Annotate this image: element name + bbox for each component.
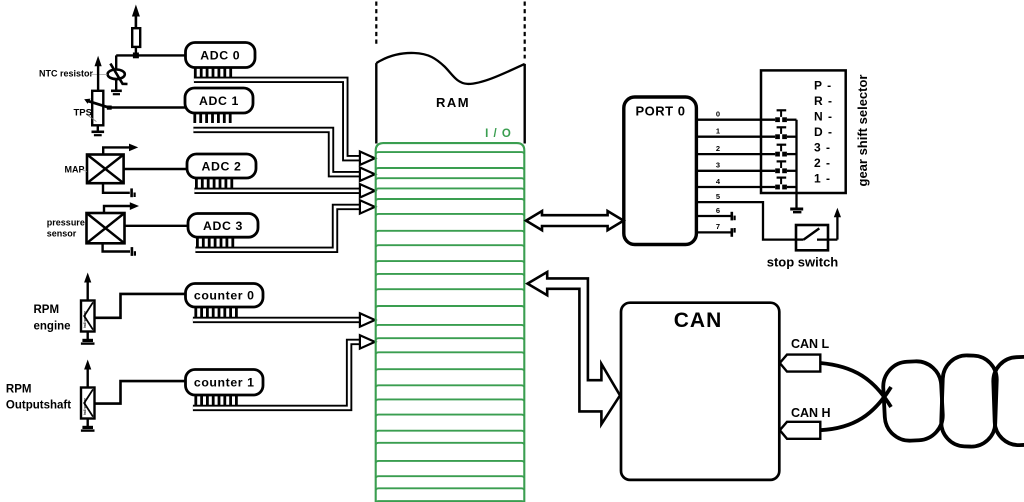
ADC 0 bus arrowhead into I/O xyxy=(360,152,375,165)
svg-text:2: 2 xyxy=(716,144,720,153)
RPM engine sensor xyxy=(81,301,95,332)
svg-text:2 -: 2 - xyxy=(814,156,831,170)
svg-text:CAN L: CAN L xyxy=(791,337,830,351)
MAP sensor xyxy=(87,155,124,184)
label CAN L xyxy=(791,337,830,351)
svg-text:pressure: pressure xyxy=(47,217,85,227)
gear switch 2 (push button) xyxy=(775,145,796,157)
svg-text:3 -: 3 - xyxy=(814,141,831,155)
ground under TPS xyxy=(92,125,105,135)
bent arrow I/O <-> CAN xyxy=(528,272,621,424)
svg-text:sensor: sensor xyxy=(47,228,77,238)
CAN L connector xyxy=(780,355,821,372)
RAM column dashed top left xyxy=(375,2,377,46)
gear position label P xyxy=(814,79,832,93)
CAN controller block xyxy=(621,303,779,480)
NTC resistor (thermistor) xyxy=(108,55,128,90)
ADC 1 block U-ADC1 xyxy=(185,88,253,113)
ADC 3 bus to I/O xyxy=(195,207,360,250)
ground under RPM outputshaft sensor xyxy=(81,419,95,431)
counter 1 block xyxy=(186,370,264,396)
label stop switch xyxy=(767,254,839,269)
counter 0 bus to I/O xyxy=(193,317,359,323)
svg-text:P -: P - xyxy=(814,79,832,93)
supply arrow above TPS xyxy=(95,56,102,91)
label NTC resistor xyxy=(39,69,107,79)
ADC 2 bus to I/O xyxy=(194,188,360,194)
gear position label 1 xyxy=(814,172,831,186)
svg-text:ADC 2: ADC 2 xyxy=(202,159,242,173)
ground under RPM engine sensor xyxy=(81,332,95,344)
ADC 3 pin comb xyxy=(197,237,232,247)
RAM column left wall xyxy=(375,63,377,143)
I/O register file (green rows) xyxy=(376,143,525,502)
svg-text:1 -: 1 - xyxy=(814,172,831,186)
svg-text:counter 1: counter 1 xyxy=(194,376,255,390)
wire pressure sensor to ADC 3 xyxy=(125,225,189,227)
counter 1 bus arrowhead into I/O xyxy=(360,335,375,348)
pressure sensor vent stub with termination xyxy=(103,243,135,256)
RAM torn-edge wavy curve xyxy=(376,53,524,84)
label I/O xyxy=(485,128,512,140)
twisted pair loop 2 xyxy=(940,355,997,448)
double arrow I/O <-> PORT0 xyxy=(526,211,624,230)
ADC 1 bus to I/O xyxy=(193,130,360,174)
gear switch 4 (push button) xyxy=(775,178,796,190)
ADC 2 pin comb xyxy=(196,178,231,188)
gear switch 3 (push button) xyxy=(775,161,796,173)
supply arrow above pull-up resistor xyxy=(132,5,140,29)
PORT0 pin 5 wire to stop switch xyxy=(696,192,796,240)
RAM column dashed top right xyxy=(524,2,526,59)
supply arrow above RPM engine sensor xyxy=(84,273,91,301)
svg-text:Outputshaft: Outputshaft xyxy=(6,400,71,412)
svg-text:ADC 0: ADC 0 xyxy=(200,48,240,62)
gear switch common bus xyxy=(795,120,797,209)
wire RPM outputshaft sensor to counter 1 xyxy=(95,381,186,404)
RAM column right wall xyxy=(524,64,526,144)
ADC 1 pin comb xyxy=(195,113,230,123)
gear shift selector box xyxy=(761,70,846,193)
label pressure sensor xyxy=(47,217,85,238)
label MAP xyxy=(65,164,87,174)
MAP vent stub with termination xyxy=(103,183,135,197)
PORT0 pin 6 stub xyxy=(696,206,734,221)
wire MAP to ADC 2 xyxy=(124,168,188,170)
node junction at ADC0 wire xyxy=(133,53,139,59)
ADC 2 block U-ADC2 xyxy=(187,154,256,178)
counter 0 pin comb xyxy=(196,307,237,318)
ADC 0 bus to I/O xyxy=(194,80,360,158)
svg-text:CAN H: CAN H xyxy=(791,406,831,420)
label CAN H xyxy=(791,406,831,420)
svg-text:R -: R - xyxy=(814,94,833,108)
node junction TPS wiper xyxy=(107,106,112,110)
label TPS xyxy=(74,108,97,122)
ground under NTC xyxy=(111,91,122,94)
svg-text:TPS: TPS xyxy=(74,108,92,119)
svg-text:1: 1 xyxy=(716,127,720,136)
svg-text:3: 3 xyxy=(716,161,720,170)
svg-text:ADC 1: ADC 1 xyxy=(199,94,239,108)
wire resistor to junction xyxy=(135,47,137,56)
ADC 3 block U-ADC3 xyxy=(188,214,258,238)
svg-text:CAN: CAN xyxy=(674,309,723,332)
RPM outputshaft sensor xyxy=(81,388,95,419)
ADC 0 block U-ADC0 xyxy=(186,43,256,68)
svg-text:RPM: RPM xyxy=(34,304,60,316)
wire RPM engine sensor to counter 0 xyxy=(95,294,186,318)
pull-up resistor xyxy=(132,28,140,47)
twisted pair wire CAN L xyxy=(820,363,891,407)
label gear shift selector xyxy=(855,75,870,187)
svg-text:NTC resistor: NTC resistor xyxy=(39,69,94,79)
ADC 1 bus arrowhead into I/O xyxy=(360,168,375,181)
wire to ADC 0 xyxy=(116,54,185,56)
pressure sensor xyxy=(87,213,125,243)
MAP pressure-in arrow xyxy=(103,144,138,155)
label RPM Outputshaft xyxy=(6,383,71,411)
counter 0 block xyxy=(186,284,264,308)
svg-text:engine: engine xyxy=(34,321,71,333)
ADC 2 bus arrowhead into I/O xyxy=(360,184,375,197)
svg-text:RAM: RAM xyxy=(436,95,470,110)
PORT0 pin 7 stub xyxy=(696,222,734,237)
svg-text:hall sensor: hall sensor xyxy=(83,310,87,328)
svg-text:7: 7 xyxy=(716,222,720,231)
svg-text:I / O: I / O xyxy=(485,128,512,140)
svg-text:N -: N - xyxy=(814,110,833,124)
gear position label N xyxy=(814,110,833,124)
stop switch output arrow xyxy=(834,208,841,240)
PORT0 pin 1 wire xyxy=(696,127,775,137)
svg-text:D -: D - xyxy=(814,125,833,139)
PORT0 pin 0 wire xyxy=(696,110,775,120)
ground under gear selector xyxy=(790,209,803,212)
gear switch 0 (push button) xyxy=(775,110,796,122)
ADC 0 pin comb xyxy=(195,68,230,78)
svg-text:5: 5 xyxy=(716,192,720,201)
PORT0 pin 2 wire xyxy=(696,144,775,154)
gear position label 2 xyxy=(814,156,831,170)
svg-text:hall sensor: hall sensor xyxy=(83,397,87,415)
svg-text:PORT 0: PORT 0 xyxy=(636,104,686,119)
svg-text:RPM: RPM xyxy=(6,383,32,395)
svg-text:ADC 3: ADC 3 xyxy=(203,219,243,233)
PORT0 pin 3 wire xyxy=(696,161,775,171)
counter 1 bus to I/O xyxy=(193,342,359,408)
counter 0 bus arrowhead into I/O xyxy=(360,313,375,326)
svg-text:6: 6 xyxy=(716,206,720,215)
wire TPS to ADC 1 xyxy=(112,106,186,108)
PORT0 pin 4 wire xyxy=(696,177,775,187)
pressure sensor pressure-in arrow xyxy=(104,202,139,213)
twisted pair loop 3 xyxy=(992,356,1024,446)
supply arrow above RPM outputshaft sensor xyxy=(84,360,91,388)
svg-text:gear shift selector: gear shift selector xyxy=(855,75,870,187)
counter 1 pin comb xyxy=(196,395,237,406)
twisted pair loop 1 xyxy=(882,360,944,442)
gear position label 3 xyxy=(814,141,831,155)
gear position label D xyxy=(814,125,833,139)
gear switch 1 (push button) xyxy=(775,127,796,139)
svg-text:stop switch: stop switch xyxy=(767,254,839,269)
svg-text:counter 0: counter 0 xyxy=(194,289,255,303)
label RPM engine xyxy=(34,304,71,333)
svg-text:0: 0 xyxy=(716,110,720,119)
ADC 3 bus arrowhead into I/O xyxy=(360,200,375,213)
svg-text:MAP: MAP xyxy=(65,164,85,174)
CAN H connector xyxy=(780,422,821,439)
label RAM xyxy=(436,95,470,110)
stop switch xyxy=(796,225,837,250)
gear position label R xyxy=(814,94,833,108)
TPS potentiometer xyxy=(84,91,109,126)
op PORT 0 block xyxy=(624,97,697,245)
twisted pair wire CAN H xyxy=(820,387,891,430)
